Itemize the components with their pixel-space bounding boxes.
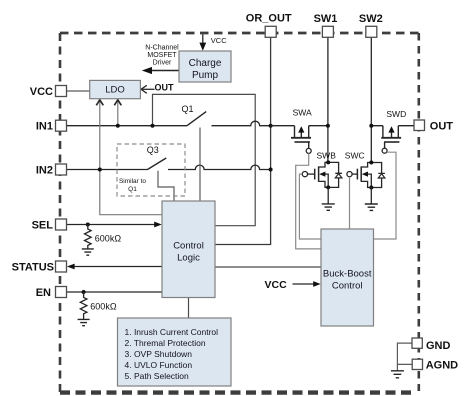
node dot IN1/LDO bbox=[116, 124, 120, 128]
node dot IN1/sense bbox=[151, 124, 155, 128]
svg-text:MOSFET: MOSFET bbox=[147, 52, 177, 59]
control logic block bbox=[162, 201, 215, 298]
transistor SWC bbox=[352, 163, 371, 188]
svg-text:5. Path Selection: 5. Path Selection bbox=[125, 371, 190, 381]
control line from control logic to Q3 bbox=[158, 171, 174, 201]
gate wire SWD to buck-boost bbox=[374, 152, 397, 239]
wire SEL into control logic bbox=[67, 224, 156, 226]
switch Q1 output wire with hop over sense wire bbox=[212, 121, 271, 126]
svg-text:Q3: Q3 bbox=[147, 145, 159, 155]
svg-text:SW2: SW2 bbox=[359, 13, 383, 25]
pin IN2 bbox=[56, 164, 67, 175]
ground under EN resistor bbox=[78, 319, 90, 325]
svg-text:GND: GND bbox=[426, 340, 451, 352]
svg-text:Control: Control bbox=[173, 241, 204, 252]
wire VCC pin to LDO bbox=[67, 90, 90, 92]
IC boundary dashed border top bbox=[60, 32, 419, 35]
charge pump block bbox=[179, 51, 231, 82]
svg-text:VCC: VCC bbox=[211, 36, 227, 45]
svg-text:SWB: SWB bbox=[317, 150, 337, 160]
ground under SWC bbox=[370, 188, 372, 204]
svg-text:2. Thremal Protection: 2. Thremal Protection bbox=[125, 338, 206, 348]
svg-text:SEL: SEL bbox=[32, 220, 54, 232]
svg-text:Q1: Q1 bbox=[128, 186, 137, 193]
pin SEL bbox=[56, 219, 67, 230]
OUT label arrow into LDO bbox=[141, 88, 154, 90]
VCC feed into charge pump bbox=[202, 35, 204, 44]
switch Q3 output wire with hops over Q1 control line and sense wire bbox=[168, 165, 271, 169]
buck-boost control block bbox=[321, 229, 374, 326]
svg-text:EN: EN bbox=[36, 287, 51, 299]
wire STATUS from control logic bbox=[74, 266, 162, 268]
control line from control logic to Q1 bbox=[199, 128, 201, 202]
SW2 rail bbox=[370, 37, 372, 162]
pin GND bbox=[412, 338, 422, 348]
svg-text:AGND: AGND bbox=[426, 360, 458, 372]
node dot Q1 output / OR_OUT rail bbox=[269, 124, 273, 128]
wire IN2 to switch Q3 bbox=[67, 169, 148, 171]
svg-text:SW1: SW1 bbox=[314, 13, 338, 25]
ground symbol near AGND bbox=[391, 371, 404, 378]
pin VCC bbox=[56, 86, 67, 97]
svg-text:VCC: VCC bbox=[30, 86, 53, 98]
svg-text:Logic: Logic bbox=[177, 253, 200, 264]
svg-text:4. UVLO Function: 4. UVLO Function bbox=[125, 360, 193, 370]
OR_OUT rail down to control logic bbox=[215, 37, 271, 244]
transistor SWD bbox=[371, 126, 414, 149]
svg-text:3. OVP Shutdown: 3. OVP Shutdown bbox=[125, 349, 193, 359]
pin SW2 bbox=[366, 26, 377, 37]
sense wire IN1 to control logic right side bbox=[153, 94, 256, 225]
node dot IN2/LDO bbox=[98, 168, 102, 172]
N-channel MOSFET driver arrow from charge pump bbox=[152, 70, 180, 72]
svg-text:Control: Control bbox=[332, 280, 363, 291]
wire EN into control logic bbox=[67, 291, 163, 293]
resistor 600k on EN bbox=[80, 292, 87, 319]
transistor SWA bbox=[271, 126, 328, 149]
svg-text:SWC: SWC bbox=[345, 150, 365, 160]
svg-text:Buck-Boost: Buck-Boost bbox=[323, 269, 372, 280]
svg-text:OUT: OUT bbox=[430, 120, 454, 132]
wire control logic to buck-boost control bbox=[215, 266, 321, 268]
svg-text:1. Inrush Current Control: 1. Inrush Current Control bbox=[125, 327, 219, 337]
ground under SWB bbox=[327, 187, 329, 203]
svg-text:IN1: IN1 bbox=[36, 121, 53, 133]
wire control logic to function list box bbox=[188, 298, 190, 319]
resistor 600k on SEL bbox=[85, 225, 92, 249]
IC boundary dashed border bottom bbox=[60, 390, 415, 394]
pin EN bbox=[56, 287, 67, 298]
gate wire SWC to buck-boost bbox=[349, 177, 351, 229]
svg-text:N-Channel: N-Channel bbox=[145, 44, 179, 51]
node dot SWD/SW2 bbox=[369, 124, 373, 128]
wire LDO input from IN1 bbox=[117, 101, 119, 126]
wire GND / AGND to ground bbox=[397, 343, 412, 364]
pin SW1 bbox=[322, 26, 333, 37]
transistor SWB bbox=[308, 162, 329, 187]
wire IN1 to switch Q1 bbox=[67, 125, 188, 127]
svg-text:600kΩ: 600kΩ bbox=[90, 301, 117, 311]
LDO block bbox=[90, 80, 141, 98]
svg-text:Q1: Q1 bbox=[182, 104, 194, 114]
svg-text:SWA: SWA bbox=[293, 108, 312, 118]
IC boundary dashed border left bbox=[59, 33, 62, 393]
node dot Q3 output / OR_OUT rail bbox=[269, 168, 273, 172]
svg-text:Driver: Driver bbox=[153, 60, 172, 67]
wire LDO input from IN2 down to control logic bbox=[100, 101, 162, 215]
gate wire SWB to buck-boost bbox=[299, 174, 321, 239]
IC boundary dashed border right bbox=[417, 33, 420, 391]
svg-text:OR_OUT: OR_OUT bbox=[246, 13, 292, 25]
pin OUT bbox=[414, 120, 425, 131]
svg-text:STATUS: STATUS bbox=[12, 262, 54, 274]
function list box bbox=[118, 318, 232, 386]
SW1 rail bbox=[327, 37, 329, 162]
Q3 dashed box bbox=[117, 144, 185, 196]
svg-text:SWD: SWD bbox=[386, 109, 406, 119]
svg-text:Similar to: Similar to bbox=[119, 178, 146, 185]
switch Q3 blade bbox=[148, 158, 167, 170]
svg-text:IN2: IN2 bbox=[36, 165, 53, 177]
pin STATUS bbox=[56, 261, 67, 272]
arrowhead into LDO bottom (IN2 feed) bbox=[96, 100, 103, 106]
body diode of SWC bbox=[371, 163, 385, 188]
svg-text:LDO: LDO bbox=[105, 85, 125, 96]
ground under SEL resistor bbox=[82, 249, 94, 255]
svg-text:Pump: Pump bbox=[192, 70, 219, 81]
body diode of SWB bbox=[328, 162, 342, 187]
arrowhead into LDO bottom (IN1 feed) bbox=[114, 100, 121, 106]
node dot SWA/SW1 bbox=[326, 124, 330, 128]
switch Q1 blade bbox=[187, 112, 206, 126]
svg-text:VCC: VCC bbox=[265, 279, 288, 291]
svg-text:OUT: OUT bbox=[155, 83, 175, 93]
svg-text:600kΩ: 600kΩ bbox=[95, 233, 122, 243]
svg-text:Charge: Charge bbox=[189, 58, 222, 69]
pin IN1 bbox=[56, 120, 67, 131]
pin AGND bbox=[412, 359, 422, 369]
gate wire SWA to buck-boost bbox=[296, 153, 321, 249]
pin OR_OUT bbox=[265, 26, 276, 37]
